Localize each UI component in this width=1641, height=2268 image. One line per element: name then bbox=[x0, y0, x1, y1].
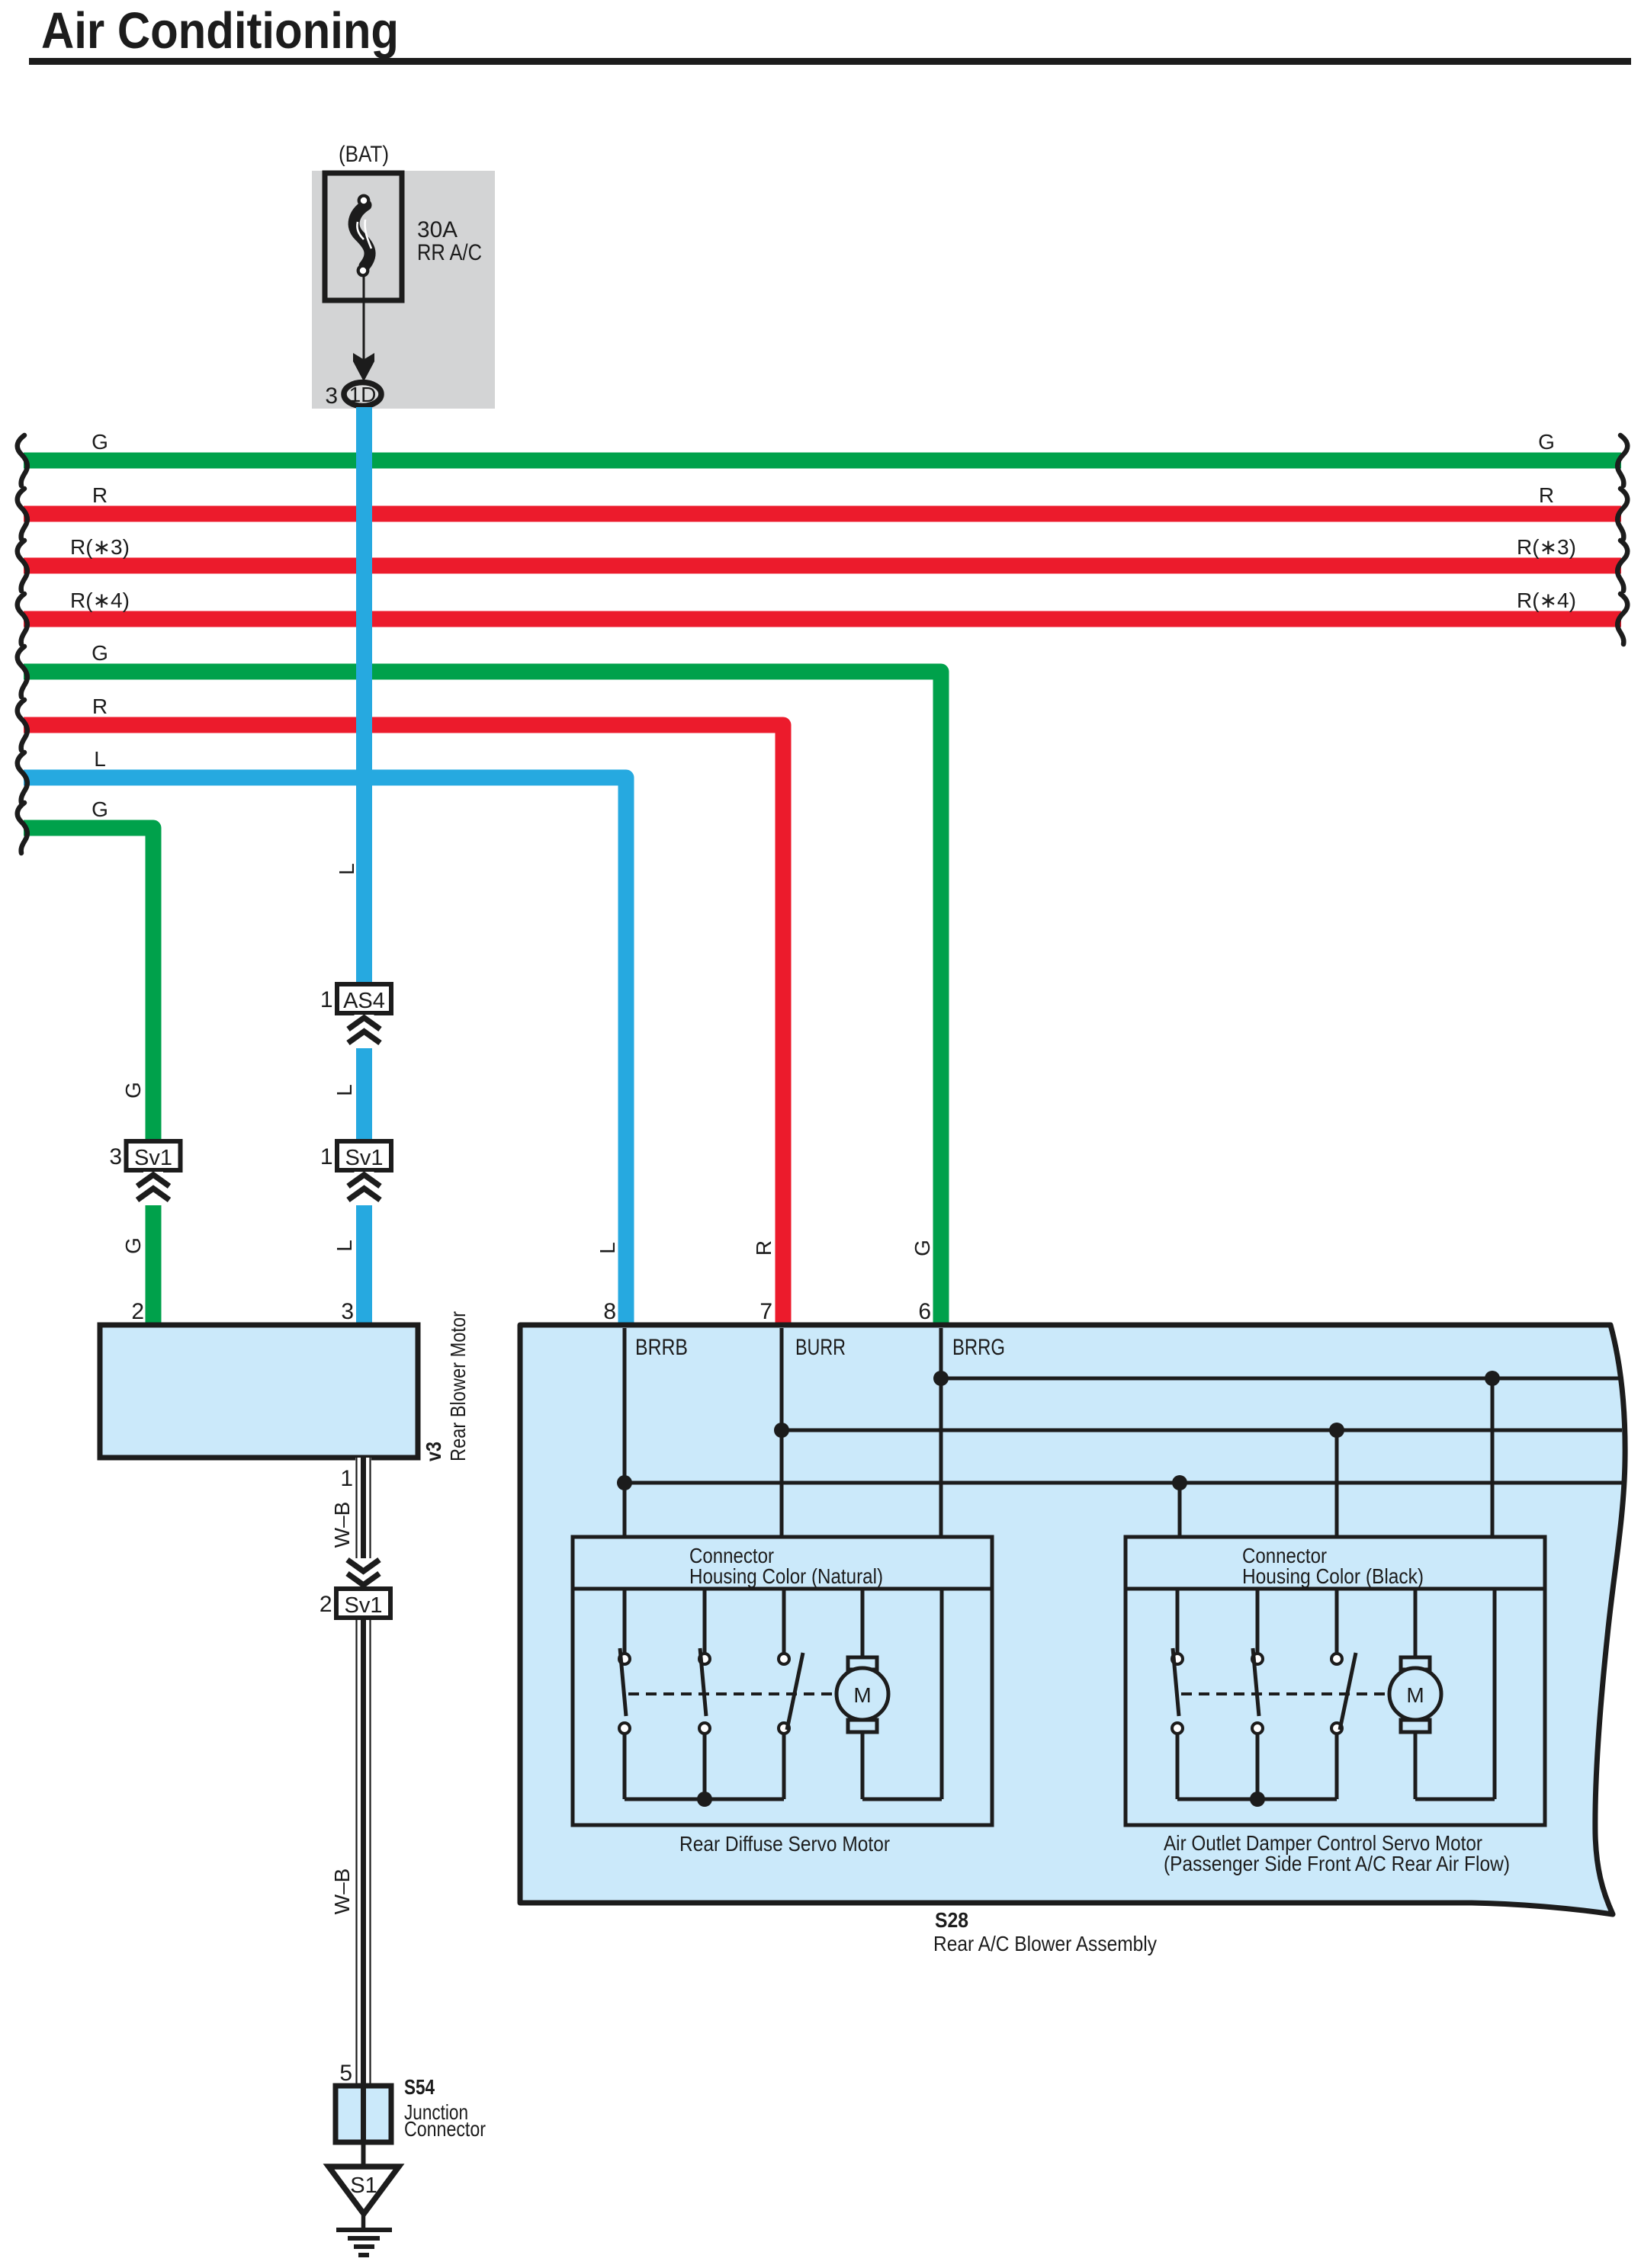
right label G row1 bbox=[1538, 430, 1555, 454]
code L below Sv1 mid bbox=[332, 1240, 356, 1252]
wire drop from pin6 bbox=[939, 1328, 943, 1537]
svg-text:Sv1: Sv1 bbox=[345, 1146, 384, 1170]
svg-text:(BAT): (BAT) bbox=[339, 142, 389, 167]
label S54 Junction Connector bbox=[404, 2075, 486, 2141]
chevrons below Sv1 blue bbox=[348, 1172, 381, 1205]
svg-text:R: R bbox=[1539, 483, 1554, 507]
junction dot at 819,1945 bbox=[617, 1475, 632, 1490]
code G above Sv1 left bbox=[121, 1082, 145, 1099]
svg-text:2: 2 bbox=[131, 1299, 144, 1324]
svg-text:G: G bbox=[910, 1240, 934, 1256]
svg-text:W–B: W–B bbox=[330, 1869, 354, 1915]
svg-text:S28: S28 bbox=[935, 1908, 968, 1932]
left break squiggle row4 bbox=[18, 594, 27, 644]
wire drop from pin7 bbox=[780, 1328, 784, 1537]
right break squiggle row1 bbox=[1617, 435, 1627, 486]
switch common bus bbox=[625, 1792, 784, 1807]
title Air Conditioning bbox=[41, 2, 399, 59]
switch 2 bbox=[699, 1589, 710, 1799]
dashed gang line bbox=[628, 1692, 833, 1695]
svg-text:Rear Blower Motor: Rear Blower Motor bbox=[446, 1311, 470, 1461]
switch 2 bbox=[1252, 1589, 1263, 1799]
fuse element bbox=[354, 196, 371, 276]
chevrons below AS4 bbox=[348, 1015, 381, 1048]
left label R(&#8727;4) row4 bbox=[70, 589, 130, 612]
svg-text:S1: S1 bbox=[350, 2173, 377, 2198]
left break squiggle row6 bbox=[18, 700, 27, 750]
switch 3 bbox=[1331, 1589, 1356, 1799]
wire drop from pin8 bbox=[623, 1328, 627, 1537]
code G at pin 6 bbox=[910, 1240, 934, 1256]
junction connector S54 box bbox=[336, 2086, 391, 2142]
svg-text:R(∗3): R(∗3) bbox=[1517, 535, 1576, 559]
svg-text:G: G bbox=[121, 1082, 145, 1099]
svg-text:3: 3 bbox=[109, 1144, 122, 1169]
switch common bus bbox=[1177, 1792, 1337, 1807]
junction dot at 1753,1876 bbox=[1329, 1423, 1344, 1438]
code L on 1D wire bbox=[335, 863, 358, 875]
svg-text:R: R bbox=[92, 695, 108, 718]
left label G row8 bbox=[92, 797, 108, 821]
junction dot at 1957,1808 bbox=[1485, 1371, 1500, 1386]
left break squiggle row7 bbox=[18, 752, 27, 803]
svg-text:Sv1: Sv1 bbox=[134, 1146, 172, 1170]
label (BAT) bbox=[339, 142, 389, 167]
svg-text:3: 3 bbox=[341, 1299, 354, 1324]
pin 7 of S28 bbox=[759, 1299, 772, 1324]
svg-text:BRRG: BRRG bbox=[952, 1335, 1005, 1360]
svg-text:Connector: Connector bbox=[404, 2117, 486, 2141]
wire row6 R to pin 7 bbox=[24, 725, 783, 1326]
label Rear Diffuse Servo Motor bbox=[679, 1832, 890, 1856]
motor return bus bbox=[862, 1589, 942, 1799]
wire S54 to ground bbox=[361, 2142, 366, 2167]
ground S1 triangle bbox=[329, 2167, 399, 2214]
label Air Outlet Damper Control Servo Motor bbox=[1164, 1831, 1510, 1875]
connector Sv1 pin 2 (W-B) bbox=[320, 1589, 390, 1618]
wire row4 R(&#8727;4) full-width bbox=[24, 611, 1621, 627]
svg-text:S54: S54 bbox=[404, 2075, 435, 2099]
svg-text:Rear Diffuse Servo Motor: Rear Diffuse Servo Motor bbox=[679, 1832, 890, 1856]
label v3 bbox=[422, 1442, 445, 1461]
wire BRRG bus (top) bbox=[941, 1377, 1621, 1381]
left break squiggle row1 bbox=[18, 435, 27, 486]
svg-text:Sv1: Sv1 bbox=[345, 1593, 383, 1618]
svg-text:M: M bbox=[853, 1683, 871, 1707]
svg-text:BRRB: BRRB bbox=[635, 1335, 688, 1360]
right break squiggle row3 bbox=[1617, 541, 1627, 591]
net label BRRB bbox=[635, 1335, 688, 1360]
svg-text:Housing Color (Natural): Housing Color (Natural) bbox=[689, 1564, 883, 1588]
code W-B upper bbox=[330, 1502, 354, 1548]
wire row2 R full-width bbox=[24, 506, 1621, 522]
svg-text:Housing Color (Black): Housing Color (Black) bbox=[1242, 1564, 1424, 1588]
servo connector box at 751 bbox=[573, 1537, 992, 1825]
svg-text:1: 1 bbox=[340, 1466, 353, 1491]
code R at pin 7 bbox=[752, 1240, 776, 1256]
servo motor M bbox=[1389, 1589, 1441, 1799]
svg-text:W–B: W–B bbox=[330, 1502, 354, 1548]
svg-text:v3: v3 bbox=[422, 1442, 445, 1461]
svg-text:5: 5 bbox=[339, 2061, 352, 2086]
wire W-B from blower pin 1 bbox=[355, 1458, 371, 2086]
chevrons down on W-B bbox=[348, 1558, 380, 1590]
wire row1 G full-width bbox=[24, 453, 1621, 469]
switch 3 bbox=[779, 1589, 803, 1799]
title rule bbox=[29, 58, 1631, 65]
connector Sv1 pin 3 (green wire) bbox=[109, 1141, 180, 1170]
switch 1 bbox=[619, 1589, 630, 1799]
pin 1 of blower motor (bottom) bbox=[340, 1466, 353, 1491]
svg-text:(Passenger Side Front A/C Rear: (Passenger Side Front A/C Rear Air Flow) bbox=[1164, 1852, 1510, 1875]
svg-text:AS4: AS4 bbox=[343, 989, 385, 1013]
connector AS4 pin 1 bbox=[320, 984, 391, 1013]
label Rear Blower Motor bbox=[446, 1311, 470, 1461]
ground symbol bbox=[336, 2214, 392, 2255]
svg-text:30A: 30A bbox=[417, 217, 458, 242]
pin 8 of S28 bbox=[603, 1299, 616, 1324]
right break squiggle row4 bbox=[1617, 594, 1627, 644]
pin 3 of 1D bbox=[325, 383, 338, 409]
right label R(&#8727;4) row4 bbox=[1517, 589, 1576, 612]
wire fuse to connector 1D bbox=[363, 277, 365, 364]
connector Sv1 pin 1 (blue wire) bbox=[320, 1141, 391, 1170]
svg-text:1: 1 bbox=[320, 987, 333, 1012]
left break squiggle row8 bbox=[18, 803, 27, 853]
switch 1 bbox=[1172, 1589, 1183, 1799]
wire drop to right connector pin3 bbox=[1335, 1430, 1339, 1537]
code G below Sv1 left bbox=[121, 1237, 145, 1254]
svg-text:G: G bbox=[1538, 430, 1555, 454]
svg-text:G: G bbox=[92, 797, 108, 821]
pin 2 of blower motor bbox=[131, 1299, 144, 1324]
svg-text:G: G bbox=[92, 430, 108, 454]
pin 6 of S28 bbox=[918, 1299, 931, 1324]
pin 5 at junction connector bbox=[339, 2061, 352, 2086]
svg-text:L: L bbox=[94, 747, 106, 771]
left break squiggle row5 bbox=[18, 646, 27, 697]
left label G row5 bbox=[92, 641, 108, 665]
svg-text:R: R bbox=[752, 1240, 776, 1256]
left label R row2 bbox=[92, 483, 108, 507]
svg-text:L: L bbox=[596, 1242, 619, 1254]
wire L from 1D down to blower pin 3 bbox=[356, 407, 372, 1326]
svg-text:8: 8 bbox=[603, 1299, 616, 1324]
left label R(&#8727;3) row3 bbox=[70, 535, 130, 559]
svg-text:RR A/C: RR A/C bbox=[417, 240, 482, 265]
code W-B lower bbox=[330, 1869, 354, 1915]
svg-text:L: L bbox=[335, 863, 358, 875]
junction dot at 1234,1808 bbox=[933, 1371, 949, 1386]
svg-text:7: 7 bbox=[759, 1299, 772, 1324]
chevrons below Sv1 green bbox=[137, 1172, 169, 1205]
svg-text:R: R bbox=[92, 483, 108, 507]
pin 3 of blower motor bbox=[341, 1299, 354, 1324]
svg-text:M: M bbox=[1406, 1683, 1424, 1707]
wire drop to right connector pin1 bbox=[1178, 1483, 1182, 1537]
wire drop to right connector pin5 bbox=[1491, 1378, 1495, 1537]
left label L row7 bbox=[94, 747, 106, 771]
wire row5 G to pin 6 bbox=[24, 672, 941, 1326]
connector oval 1D bbox=[344, 383, 381, 407]
svg-text:1: 1 bbox=[320, 1144, 333, 1169]
left break squiggle row3 bbox=[18, 541, 27, 591]
svg-text:BURR: BURR bbox=[795, 1335, 846, 1360]
right break squiggle row2 bbox=[1617, 489, 1627, 539]
net label BRRG bbox=[952, 1335, 1005, 1360]
svg-text:1D: 1D bbox=[349, 383, 377, 406]
wire row7 L to pin 8 bbox=[24, 778, 626, 1326]
wire BURR bus (middle) bbox=[782, 1429, 1622, 1432]
svg-text:3: 3 bbox=[325, 383, 338, 409]
net label BURR bbox=[795, 1335, 846, 1360]
component S28 Rear A/C Blower Assembly box (torn right edge) bbox=[520, 1325, 1625, 1914]
svg-text:L: L bbox=[332, 1084, 356, 1096]
wire row3 R(&#8727;3) full-width bbox=[24, 558, 1621, 574]
fuse value label 30A RR A/C bbox=[417, 217, 482, 265]
svg-text:2: 2 bbox=[320, 1592, 332, 1617]
component V3 Rear Blower Motor box bbox=[100, 1325, 418, 1458]
left label G row1 bbox=[92, 430, 108, 454]
svg-text:L: L bbox=[332, 1240, 356, 1252]
arrow into connector 1D bbox=[353, 353, 374, 382]
svg-text:Air Conditioning: Air Conditioning bbox=[41, 2, 399, 59]
wire BRRB bus (bottom) bbox=[625, 1481, 1622, 1485]
left label R row6 bbox=[92, 695, 108, 718]
junction dot at 1547,1945 bbox=[1172, 1475, 1187, 1490]
svg-text:R(∗3): R(∗3) bbox=[70, 535, 130, 559]
motor return bus bbox=[1415, 1589, 1495, 1799]
svg-text:R(∗4): R(∗4) bbox=[70, 589, 130, 612]
servo motor M bbox=[837, 1589, 888, 1799]
left break squiggle row2 bbox=[18, 489, 27, 539]
junction dot at 1025,1876 bbox=[774, 1423, 789, 1438]
svg-text:R(∗4): R(∗4) bbox=[1517, 589, 1576, 612]
right label R(&#8727;3) row3 bbox=[1517, 535, 1576, 559]
svg-text:Rear A/C Blower Assembly: Rear A/C Blower Assembly bbox=[933, 1932, 1157, 1955]
servo connector box at 1476 bbox=[1126, 1537, 1545, 1825]
label S28 Rear A/C Blower Assembly bbox=[933, 1908, 1157, 1955]
right label R row2 bbox=[1539, 483, 1554, 507]
code L at pin 8 bbox=[596, 1242, 619, 1254]
fuse 30A RR A/C box bbox=[325, 173, 402, 300]
svg-text:G: G bbox=[92, 641, 108, 665]
dashed gang line bbox=[1181, 1692, 1386, 1695]
svg-text:G: G bbox=[121, 1237, 145, 1254]
wire row8 G to blower pin 2 bbox=[24, 828, 153, 1326]
code L above Sv1 mid bbox=[332, 1084, 356, 1096]
svg-text:6: 6 bbox=[918, 1299, 931, 1324]
gray power-source block bbox=[312, 171, 495, 409]
